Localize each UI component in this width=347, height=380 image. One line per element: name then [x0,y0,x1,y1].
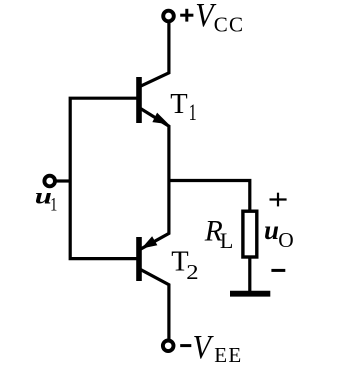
terminal +VCC [163,11,174,22]
transistor T1 emitter wire, node wire, transistor T2 emitter wire [140,108,169,250]
label -VEE minus sign [180,344,191,347]
svg-text:u: u [264,215,279,245]
svg-text:O: O [278,228,293,252]
svg-text:L: L [220,228,233,253]
wire output node to RL [169,181,250,213]
svg-text:EE: EE [214,343,242,367]
svg-text:1: 1 [50,194,57,215]
label output plus sign [270,193,287,207]
svg-text:CC: CC [214,13,244,37]
transistor T2 base bar [136,237,142,281]
wire input stub [56,179,71,182]
svg-text:2: 2 [186,260,198,284]
terminal -VEE [163,341,174,352]
transistor T1 base bar [136,77,142,123]
label +VCC plus sign [180,9,193,22]
svg-text:1: 1 [189,101,197,126]
resistor RL [243,211,257,257]
transistor T2 emitter arrow [143,238,156,248]
ground [230,291,270,297]
transistor T1 emitter arrow [154,114,167,123]
svg-text:V: V [193,328,215,365]
wire collector T2 to -VEE [139,269,169,340]
wire collector T1 to +VCC [139,22,169,87]
terminal u1 input [44,176,55,187]
wire RL to ground [248,256,251,293]
label output minus sign [271,269,285,272]
svg-text:T: T [170,89,187,120]
wire base T1, left bus, base T2 [70,98,139,258]
